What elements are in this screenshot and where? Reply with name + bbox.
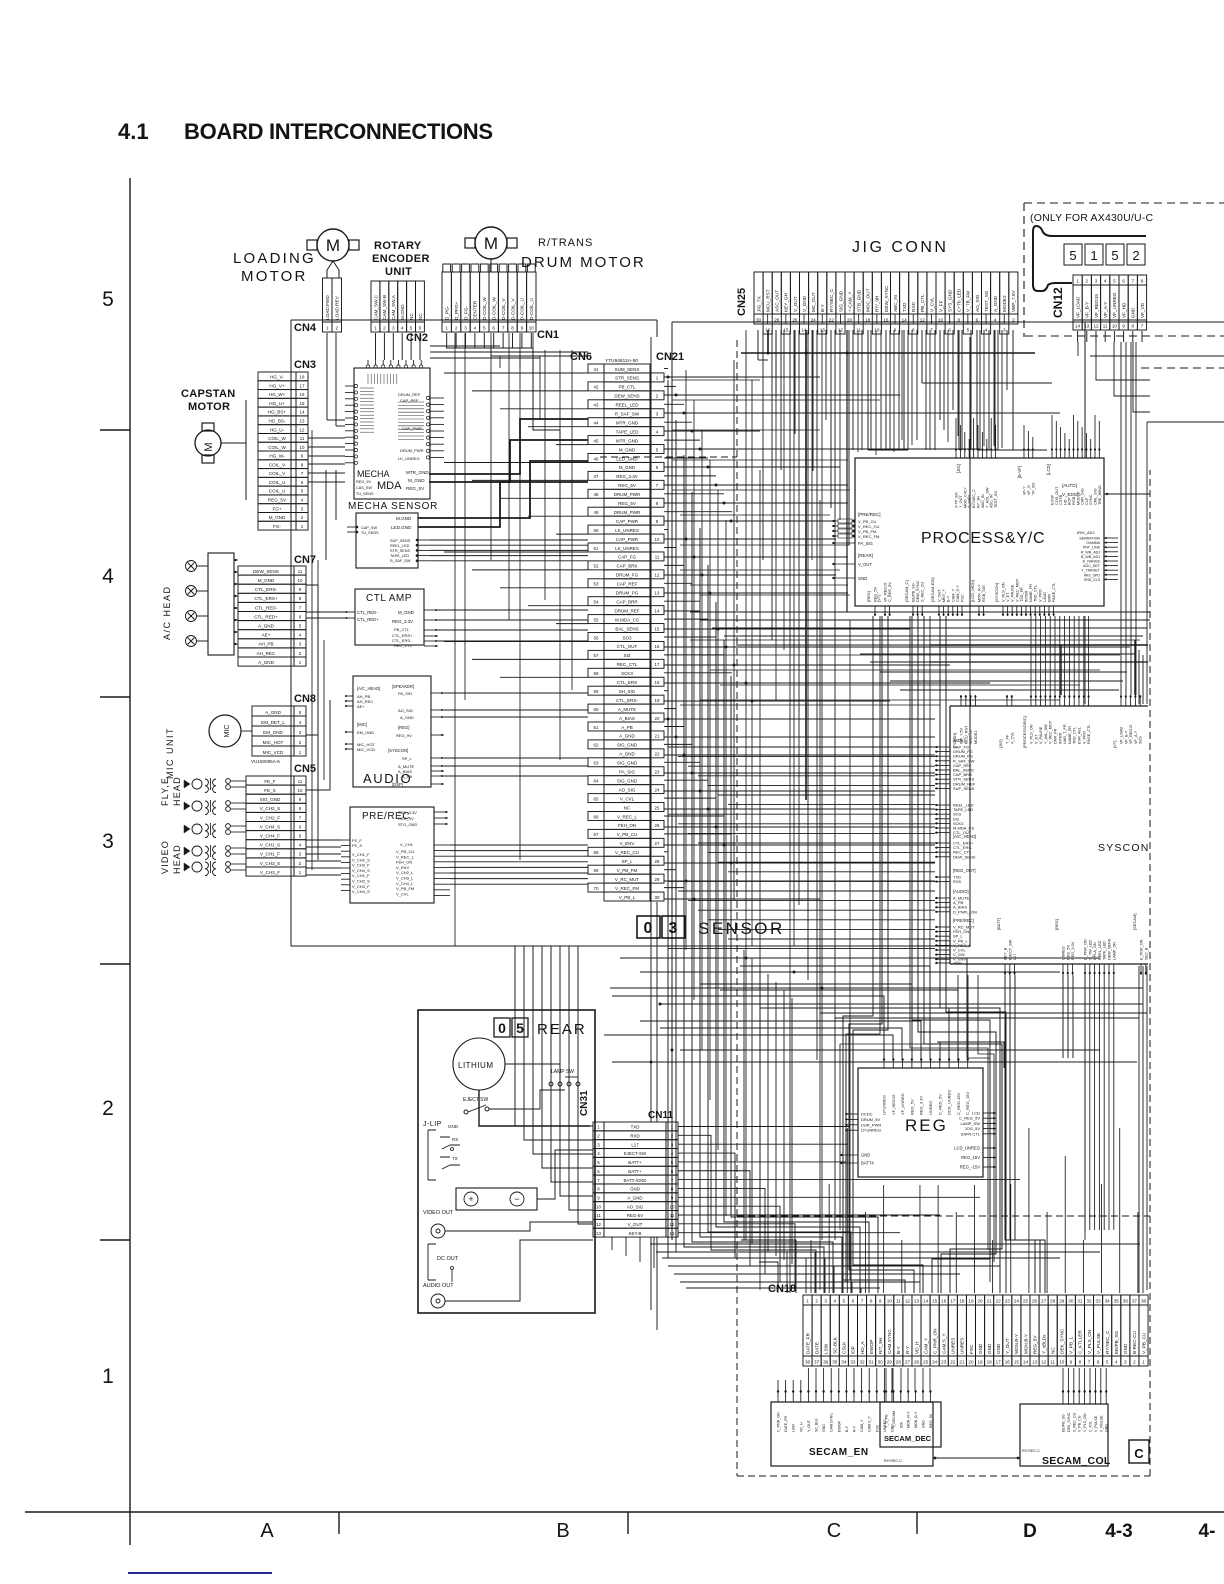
wire CN25 pins down into board: [758, 330, 1052, 545]
svg-text:11: 11: [298, 779, 303, 784]
svg-text:DRUM_5V: DRUM_5V: [861, 1117, 880, 1122]
svg-text:C: C: [1134, 1446, 1144, 1461]
svg-text:SUM_SENS: SUM_SENS: [615, 367, 640, 372]
svg-text:NC: NC: [418, 313, 423, 320]
svg-text:34: 34: [841, 1360, 847, 1365]
svg-text:VF_LOAD: VF_LOAD: [1075, 296, 1080, 318]
svg-text:FG+: FG+: [272, 506, 281, 511]
svg-text:EE/PB_SG: EE/PB_SG: [1062, 1414, 1066, 1432]
svg-text:CAM.SYNC: CAM.SYNC: [887, 1329, 892, 1354]
svg-text:A/C HEAD: A/C HEAD: [162, 585, 172, 640]
svg-text:V_PB_CU: V_PB_CU: [1078, 1415, 1082, 1432]
svg-text:B-Y: B-Y: [896, 1345, 901, 1354]
svg-text:[REG_OUT]: [REG_OUT]: [953, 868, 976, 873]
REG top pins: [882, 1058, 971, 1115]
svg-text:AH_REC: AH_REC: [257, 651, 276, 656]
svg-text:28: 28: [896, 1360, 902, 1365]
svg-text:6: 6: [1122, 279, 1125, 284]
svg-text:CAP_BRR: CAP_BRR: [616, 599, 638, 604]
svg-text:33: 33: [850, 1360, 856, 1365]
svg-text:AUDIO OUT: AUDIO OUT: [423, 1283, 454, 1289]
svg-text:12: 12: [1093, 324, 1099, 329]
svg-text:26: 26: [1032, 1299, 1038, 1304]
connector CN4: [323, 278, 342, 332]
svg-text:M_GND: M_GND: [619, 465, 636, 470]
svg-text:3: 3: [1003, 328, 1006, 333]
svg-text:C_REG_5V: C_REG_5V: [888, 582, 892, 602]
svg-text:V_CH3_F: V_CH3_F: [352, 863, 370, 868]
svg-text:4: 4: [985, 328, 988, 333]
svg-text:10: 10: [670, 1204, 675, 1209]
wire MECHA sensor to CN6 thick: [418, 419, 588, 561]
switch EJECT SW: [463, 1097, 510, 1114]
svg-text:27: 27: [655, 841, 660, 846]
svg-text:5: 5: [516, 1020, 524, 1036]
svg-text:TRE_WIND: TRE_WIND: [1098, 485, 1102, 505]
wire drum motor to CN1: [490, 259, 492, 272]
svg-text:C_PNR_ON: C_PNR_ON: [932, 1328, 937, 1354]
svg-text:[SYSCON]: [SYSCON]: [388, 748, 408, 753]
svg-text:GND: GND: [858, 576, 867, 581]
SYSCON left pins: [935, 738, 977, 966]
svg-text:25: 25: [655, 805, 660, 810]
svg-text:T_SECAM: T_SECAM: [892, 1411, 896, 1428]
svg-text:C: C: [827, 1520, 841, 1542]
block MECHA MDA: [345, 360, 444, 499]
svg-text:6: 6: [948, 328, 951, 333]
svg-text:17: 17: [996, 1360, 1002, 1365]
svg-text:D-COIL_U: D-COIL_U: [529, 298, 534, 320]
svg-text:INTER: INTER: [1058, 732, 1062, 744]
wire CN11 bottom stubs: [612, 1237, 654, 1268]
svg-text:9: 9: [521, 326, 524, 331]
svg-text:11: 11: [1103, 324, 1108, 329]
drum motor M2: [465, 227, 517, 259]
svg-text:M.GND: M.GND: [396, 516, 412, 521]
svg-text:CAM_S-Y: CAM_S-Y: [956, 585, 960, 602]
svg-text:56: 56: [594, 635, 599, 640]
svg-text:CN6: CN6: [570, 351, 592, 363]
svg-text:GND: GND: [996, 1343, 1001, 1354]
svg-text:DRUM_REF: DRUM_REF: [614, 608, 639, 613]
svg-text:[MDA]: [MDA]: [953, 738, 965, 743]
svg-text:2: 2: [1012, 318, 1015, 323]
svg-text:TX: TX: [452, 1156, 458, 1161]
svg-text:17: 17: [950, 1299, 956, 1304]
svg-text:VF_UNREG: VF_UNREG: [1112, 292, 1117, 318]
svg-text:VF_REG15: VF_REG15: [1129, 725, 1133, 744]
svg-text:4.1: 4.1: [118, 119, 149, 144]
svg-text:RY_9H: RY_9H: [977, 496, 981, 508]
REAR internal wires: [470, 1064, 593, 1301]
battery terminals: [456, 1188, 537, 1210]
svg-text:MCU_RST: MCU_RST: [765, 289, 770, 312]
svg-text:VIDEO: VIDEO: [160, 840, 170, 874]
switch LAMP SW: [549, 1069, 580, 1086]
svg-text:V_PLS_ON: V_PLS_ON: [1002, 582, 1006, 602]
svg-text:15: 15: [1014, 1360, 1020, 1365]
svg-text:20: 20: [655, 716, 660, 721]
svg-text:D-COIL_W: D-COIL_W: [492, 297, 497, 320]
svg-text:V_CH3_S: V_CH3_S: [260, 861, 280, 866]
svg-text:28: 28: [1050, 1299, 1056, 1304]
svg-text:11: 11: [300, 436, 305, 441]
svg-text:GAMMA: GAMMA: [1086, 541, 1100, 545]
title 4.1 BOARD INTERCONNECTIONS: [118, 119, 493, 144]
svg-text:D-COIL_V: D-COIL_V: [501, 298, 506, 320]
wire left small links CN7 CN8 CN5 to blocks: [306, 470, 345, 875]
svg-text:26: 26: [914, 1360, 920, 1365]
svg-text:13: 13: [670, 1231, 675, 1236]
svg-text:AE+: AE+: [357, 704, 365, 709]
microphone MIC: [209, 715, 252, 747]
svg-text:21: 21: [959, 1360, 965, 1365]
svg-text:CAM_Y: CAM_Y: [923, 1337, 928, 1354]
svg-text:A_GND: A_GND: [258, 624, 275, 629]
svg-text:SUP_SENS: SUP_SENS: [390, 539, 411, 543]
svg-text:8: 8: [1141, 279, 1144, 284]
svg-text:MON_R-Y: MON_R-Y: [978, 584, 982, 602]
svg-text:COIL_U: COIL_U: [269, 480, 286, 485]
svg-text:46: 46: [594, 456, 599, 461]
svg-text:3: 3: [1124, 1360, 1127, 1365]
svg-text:CN11: CN11: [648, 1110, 673, 1121]
svg-text:18: 18: [655, 680, 660, 685]
svg-text:R-Y: R-Y: [853, 1425, 857, 1432]
svg-text:28: 28: [655, 859, 660, 864]
svg-text:[PROCESSOR/C]: [PROCESSOR/C]: [1022, 716, 1027, 748]
svg-text:V_REC_FM: V_REC_FM: [858, 534, 879, 539]
svg-text:CN21: CN21: [656, 351, 684, 363]
svg-text:VU160095A-5: VU160095A-5: [251, 759, 280, 764]
svg-text:FE_F: FE_F: [264, 779, 275, 784]
label R/TRANS DRUM MOTOR: [521, 237, 646, 271]
wire horizontals above REG: [610, 958, 1147, 1068]
svg-text:V_CH4_L: V_CH4_L: [396, 881, 414, 886]
svg-text:14: 14: [655, 608, 660, 613]
wire heavy top feed: [741, 330, 1035, 800]
svg-text:[A/C_HEAD]: [A/C_HEAD]: [953, 834, 976, 839]
svg-text:V_CH4_S: V_CH4_S: [352, 889, 370, 894]
svg-text:37: 37: [1132, 1299, 1138, 1304]
svg-text:SIG_GND: SIG_GND: [260, 797, 281, 802]
svg-text:FSC: FSC: [875, 1424, 879, 1432]
svg-text:[MIC]: [MIC]: [357, 722, 367, 727]
svg-text:EVR_AVL: EVR_AVL: [1078, 727, 1082, 744]
svg-text:LOAD.REV: LOAD.REV: [335, 295, 340, 320]
svg-text:REG_-15V: REG_-15V: [960, 1165, 980, 1170]
svg-text:V_CH2_S: V_CH2_S: [260, 806, 280, 811]
svg-text:[REG]: [REG]: [1054, 919, 1059, 930]
svg-text:DEW_SYNC: DEW_SYNC: [916, 580, 920, 602]
svg-text:ABC_IN: ABC_IN: [981, 494, 985, 508]
svg-text:M_GND: M_GND: [398, 610, 414, 615]
svg-text:25: 25: [923, 1360, 929, 1365]
svg-text:59: 59: [594, 689, 599, 694]
svg-text:33: 33: [1096, 1299, 1102, 1304]
svg-text:24: 24: [811, 318, 817, 323]
svg-text:EE/PB_SG: EE/PB_SG: [912, 583, 916, 602]
svg-text:19: 19: [655, 698, 660, 703]
dashed box ONLY FOR: [1024, 203, 1224, 368]
wire right edge verticals: [1139, 422, 1147, 1293]
svg-text:R/T_9H: R/T_9H: [878, 1338, 883, 1354]
svg-text:32: 32: [1086, 1299, 1092, 1304]
svg-text:NC: NC: [409, 313, 414, 320]
svg-text:CAP_FG: CAP_FG: [618, 555, 637, 560]
svg-text:HD_A: HD_A: [860, 1341, 865, 1354]
svg-text:DRUM_PG: DRUM_PG: [616, 591, 639, 596]
svg-text:[SPEAKER]: [SPEAKER]: [392, 684, 414, 689]
svg-text:S_REC_CU: S_REC_CU: [921, 581, 925, 602]
svg-text:V_CH1: V_CH1: [400, 842, 414, 847]
svg-text:M: M: [484, 234, 498, 253]
PROCESS top pins group LCD: [1046, 448, 1102, 505]
svg-text:CAM.SYNC: CAM.SYNC: [830, 1413, 834, 1432]
svg-text:VF_REG15: VF_REG15: [891, 1094, 896, 1115]
svg-text:23: 23: [655, 770, 660, 775]
svg-text:CN7: CN7: [294, 554, 316, 566]
svg-text:10: 10: [874, 328, 880, 333]
svg-text:58: 58: [594, 671, 599, 676]
svg-text:24: 24: [655, 787, 660, 792]
svg-text:UNRES: UNRES: [951, 1338, 956, 1354]
svg-text:11: 11: [596, 1213, 601, 1218]
wire CN12 verticals to SYSCON VT: [1121, 342, 1136, 695]
svg-text:COIL_V: COIL_V: [269, 462, 286, 467]
svg-text:COIL_W: COIL_W: [268, 436, 286, 441]
svg-text:R_SAF_SW: R_SAF_SW: [615, 412, 640, 417]
svg-text:62: 62: [594, 743, 599, 748]
cassette display shape: [1033, 226, 1146, 291]
svg-text:SECAM_COL: SECAM_COL: [1042, 1455, 1111, 1467]
svg-text:V_FF: V_FF: [938, 300, 943, 312]
svg-text:6: 6: [419, 326, 422, 331]
svg-text:HG_V-: HG_V-: [270, 375, 284, 380]
PROCESS top pin risers: [956, 415, 1099, 448]
svg-text:CTL_ERS: CTL_ERS: [617, 680, 637, 685]
label FLY,E HEAD: [160, 776, 182, 806]
svg-text:V_CH3_F: V_CH3_F: [260, 870, 280, 875]
block SYSCON U-syscon: [950, 706, 1150, 964]
svg-text:SO3: SO3: [622, 635, 632, 640]
svg-text:21: 21: [655, 734, 660, 739]
svg-text:SI3: SI3: [624, 653, 631, 658]
svg-text:CAS_SW: CAS_SW: [356, 486, 372, 490]
svg-text:M_GND: M_GND: [408, 478, 425, 483]
svg-text:1: 1: [1090, 248, 1097, 263]
wire upper-left mesh near CN1 CN6: [430, 346, 588, 560]
wire verticals PROCESS bottom to CN18/SECAM: [843, 616, 1006, 1293]
svg-text:54: 54: [594, 599, 599, 604]
svg-text:29: 29: [655, 877, 660, 882]
svg-text:Y_AVL_SW: Y_AVL_SW: [1044, 724, 1048, 744]
svg-text:MNT_Y: MNT_Y: [942, 589, 946, 602]
svg-text:CAM.S_Y: CAM.S_Y: [942, 1333, 947, 1354]
svg-text:V_PB_L: V_PB_L: [1069, 1336, 1074, 1354]
svg-text:GND: GND: [822, 1424, 826, 1432]
svg-text:A_PB: A_PB: [621, 725, 633, 730]
svg-text:CAP_SW: CAP_SW: [361, 526, 377, 530]
svg-text:SP_L: SP_L: [402, 756, 413, 761]
svg-text:CAP_REF: CAP_REF: [617, 582, 638, 587]
board REAR 05 outline: [418, 1010, 595, 1313]
svg-text:9: 9: [879, 1299, 882, 1304]
svg-text:V_CVL: V_CVL: [620, 796, 635, 801]
svg-text:18: 18: [300, 375, 305, 380]
svg-text:10: 10: [1112, 324, 1118, 329]
svg-text:PNT_LINK: PNT_LINK: [1083, 546, 1101, 550]
svg-text:38: 38: [1141, 1299, 1147, 1304]
svg-text:GND: GND: [1123, 1343, 1128, 1354]
svg-text:5: 5: [102, 288, 114, 311]
svg-text:1: 1: [1142, 1360, 1145, 1365]
svg-text:D_PFG+: D_PFG+: [454, 301, 459, 320]
svg-text:A_BIAS: A_BIAS: [619, 716, 635, 721]
svg-text:CTL_ERS-: CTL_ERS-: [616, 698, 638, 703]
svg-text:SECAM_EN: SECAM_EN: [809, 1447, 869, 1458]
svg-text:D: D: [1023, 1521, 1037, 1542]
svg-text:V_ENV: V_ENV: [620, 841, 635, 846]
battery LITHIUM: [453, 1038, 505, 1090]
svg-text:ERR: ERR: [1048, 594, 1052, 602]
svg-text:REC_CTL: REC_CTL: [394, 643, 413, 648]
svg-text:V_PAUSE: V_PAUSE: [1039, 726, 1043, 744]
svg-text:V_CH4_S: V_CH4_S: [260, 824, 280, 829]
svg-text:FSC: FSC: [969, 1344, 974, 1354]
svg-text:29: 29: [887, 1360, 893, 1365]
connector CN7: [238, 566, 306, 666]
svg-text:UNRES: UNRES: [960, 1338, 965, 1354]
svg-text:AO_SIG: AO_SIG: [619, 787, 636, 792]
svg-text:TXD_FR: TXD_FR: [1020, 587, 1024, 602]
svg-text:ASC_OUT: ASC_OUT: [775, 290, 780, 312]
svg-text:V_ENV: V_ENV: [396, 865, 409, 870]
svg-text:11: 11: [896, 1299, 901, 1304]
PROCESS top pins group JIG: [955, 448, 999, 508]
svg-text:D_PNPL_ON: D_PNPL_ON: [953, 909, 977, 914]
svg-text:SENSOR: SENSOR: [698, 919, 785, 938]
svg-text:DRUM_PWR: DRUM_PWR: [614, 492, 641, 497]
svg-text:V_CH4_F: V_CH4_F: [260, 834, 280, 839]
svg-text:GND: GND: [1131, 307, 1136, 318]
svg-text:TU_SENS: TU_SENS: [356, 492, 374, 496]
svg-text:V_PLS_ON: V_PLS_ON: [1030, 724, 1034, 744]
svg-text:B_WB_ADJ: B_WB_ADJ: [1081, 555, 1100, 559]
svg-text:M_GND: M_GND: [619, 447, 636, 452]
svg-text:24: 24: [932, 1360, 938, 1365]
svg-text:CN18: CN18: [768, 1283, 796, 1295]
svg-text:Y_OUT: Y_OUT: [807, 1419, 811, 1432]
svg-text:DRUM MOTOR: DRUM MOTOR: [521, 254, 646, 271]
svg-text:TU_SENS: TU_SENS: [361, 531, 379, 535]
svg-text:HG_BS-: HG_BS-: [268, 418, 286, 423]
svg-text:[AUTO]: [AUTO]: [1062, 483, 1077, 488]
svg-text:V_ET: V_ET: [1006, 592, 1010, 602]
svg-text:[BATT]: [BATT]: [996, 918, 1001, 930]
dashed board frame: [600, 340, 1150, 1476]
svg-text:4: 4: [994, 318, 997, 323]
svg-text:V_CH1_F: V_CH1_F: [352, 873, 370, 878]
svg-text:38: 38: [805, 1360, 811, 1365]
svg-text:[LCD_MON]: [LCD_MON]: [970, 580, 975, 602]
wire loading motor to CN4: [327, 261, 339, 278]
svg-text:11: 11: [298, 569, 303, 574]
svg-text:2: 2: [1086, 279, 1089, 284]
svg-text:37: 37: [814, 1360, 820, 1365]
svg-text:32: 32: [859, 1360, 865, 1365]
svg-text:LOAD.FWD: LOAD.FWD: [325, 295, 330, 320]
svg-text:R_SAF_SW: R_SAF_SW: [390, 559, 411, 563]
svg-text:DEW_SENS: DEW_SENS: [614, 394, 639, 399]
svg-text:23: 23: [1005, 1299, 1011, 1304]
svg-text:DNR_FR: DNR_FR: [1054, 728, 1058, 744]
REG left pins: [840, 1112, 881, 1166]
svg-text:V_CVL: V_CVL: [929, 297, 934, 312]
svg-text:13: 13: [820, 328, 826, 333]
svg-text:SC_BLK: SC_BLK: [815, 1418, 819, 1432]
wire long verticals x650 area: [651, 337, 657, 1330]
svg-text:R_WB_ADJ: R_WB_ADJ: [1081, 550, 1100, 554]
svg-text:COIL_W: COIL_W: [268, 445, 286, 450]
svg-text:26: 26: [655, 823, 660, 828]
svg-text:HG_V+: HG_V+: [269, 383, 285, 388]
svg-text:42: 42: [594, 385, 599, 390]
connector CN12: [1073, 275, 1147, 330]
wire capstan to CN3: [221, 400, 246, 500]
svg-text:EM_DET_L: EM_DET_L: [261, 720, 285, 725]
svg-text:3: 3: [464, 326, 467, 331]
svg-text:HG_W+: HG_W+: [269, 392, 286, 397]
svg-text:YF_SG: YF_SG: [1031, 483, 1035, 495]
svg-text:J-LIP: J-LIP: [423, 1121, 442, 1128]
svg-text:C+Tb_LED: C+Tb_LED: [957, 288, 962, 312]
svg-text:[SECAM-E/D]: [SECAM-E/D]: [930, 578, 935, 602]
svg-text:VF_UNREG: VF_UNREG: [900, 1093, 905, 1115]
svg-text:TAPE_LED: TAPE_LED: [616, 429, 639, 434]
wire CN12 stubs down: [1078, 331, 1150, 412]
svg-text:20: 20: [968, 1360, 974, 1365]
svg-text:STG_GND: STG_GND: [398, 822, 417, 827]
svg-text:SP_L: SP_L: [621, 859, 633, 864]
svg-text:10: 10: [655, 537, 660, 542]
svg-text:REG_9V: REG_9V: [396, 733, 412, 738]
svg-text:4: 4: [1115, 1360, 1118, 1365]
svg-text:V_CH1_F: V_CH1_F: [260, 852, 280, 857]
svg-text:VF_HD: VF_HD: [1121, 302, 1126, 318]
svg-text:CN5: CN5: [294, 763, 316, 775]
svg-text:REG_5V: REG_5V: [1032, 1335, 1037, 1354]
svg-text:V_REC_L: V_REC_L: [617, 814, 638, 819]
svg-text:DPLA_ON: DPLA_ON: [1093, 942, 1097, 960]
svg-text:14: 14: [1075, 324, 1081, 329]
svg-text:DATE_FR: DATE_FR: [805, 1332, 810, 1354]
svg-text:10: 10: [1059, 1360, 1065, 1365]
svg-text:CN12: CN12: [1051, 287, 1065, 318]
svg-text:S_REC_CU: S_REC_CU: [1072, 1412, 1076, 1432]
svg-text:13: 13: [655, 591, 660, 596]
svg-text:4-3: 4-3: [1105, 1521, 1132, 1542]
svg-text:YTU94812A-50: YTU94812A-50: [605, 358, 638, 364]
svg-text:V_PB_CU: V_PB_CU: [617, 832, 638, 837]
svg-text:VF_REG15: VF_REG15: [884, 583, 888, 602]
svg-text:D-COIL_W: D-COIL_W: [482, 297, 487, 320]
svg-text:69: 69: [594, 868, 599, 873]
svg-text:MON_B-Y: MON_B-Y: [914, 1411, 918, 1428]
svg-text:5: 5: [1111, 248, 1118, 263]
svg-text:24: 24: [1014, 1299, 1020, 1304]
svg-text:[REG]: [REG]: [866, 591, 871, 602]
